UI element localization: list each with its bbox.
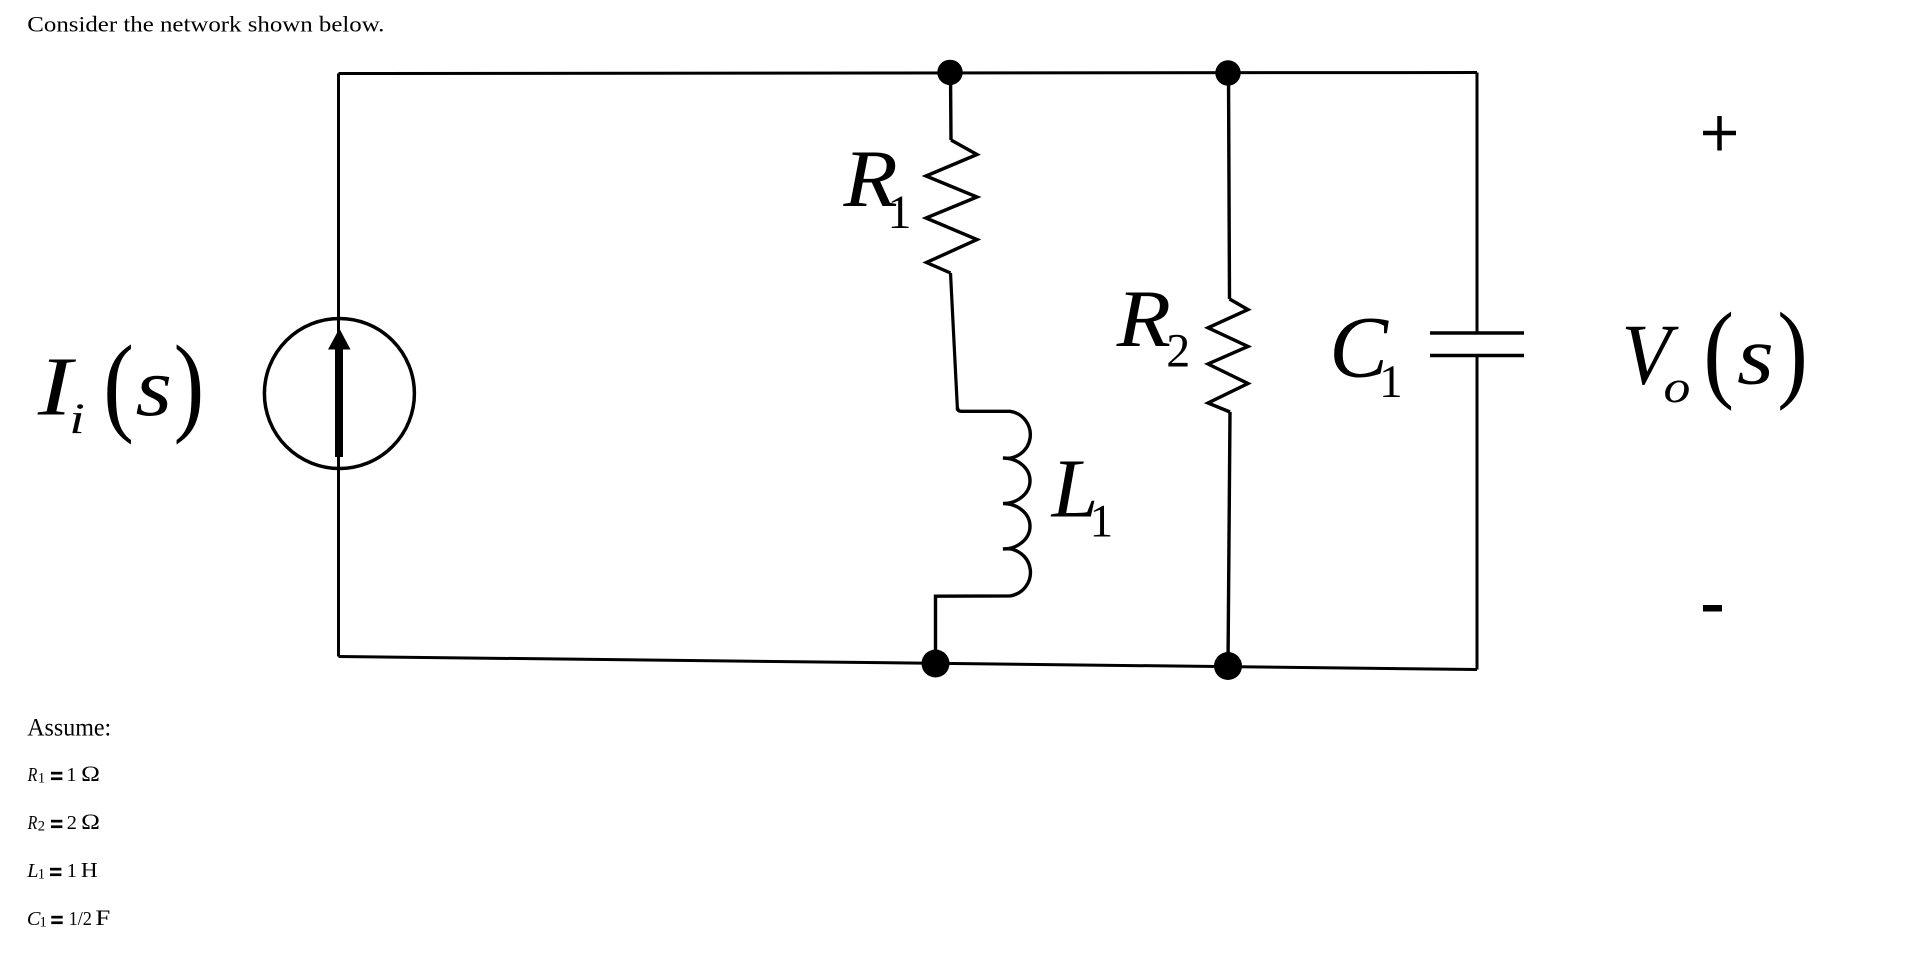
- resistor R2: [1208, 299, 1248, 412]
- assumption line C1: [27, 906, 110, 930]
- svg-text:(: (: [103, 324, 134, 446]
- wire: bottom bus: [339, 657, 1478, 670]
- label Vo(s): [1622, 290, 1808, 412]
- wire: left branch: [337, 74, 340, 657]
- svg-text:1/2: 1/2: [69, 908, 92, 930]
- svg-text:i: i: [69, 395, 85, 442]
- svg-text:R: R: [1116, 274, 1171, 364]
- svg-text:1: 1: [1090, 496, 1114, 548]
- label R2: [1116, 274, 1190, 377]
- assumption line L1: [26, 858, 97, 883]
- svg-text:1: 1: [66, 764, 76, 786]
- wire: top bus: [339, 73, 1478, 74]
- node A (top, R1 branch): [937, 60, 962, 85]
- svg-text:s: s: [1737, 309, 1774, 402]
- svg-text:Assume:: Assume:: [27, 713, 111, 741]
- current source Ii: [264, 319, 414, 469]
- svg-text:R: R: [27, 811, 38, 833]
- svg-text:o: o: [1664, 361, 1691, 412]
- svg-text:): ): [1777, 290, 1808, 411]
- svg-text:L: L: [26, 860, 38, 882]
- wire: node B to R2: [1229, 73, 1230, 299]
- wire: right branch bottom: [1476, 356, 1479, 670]
- svg-text:Consider the network shown bel: Consider the network shown below.: [27, 11, 384, 36]
- svg-text:1: 1: [888, 186, 912, 239]
- svg-text:1: 1: [40, 915, 47, 931]
- svg-text:1: 1: [38, 867, 45, 883]
- svg-text:): ): [174, 324, 205, 446]
- assumption line R2: [27, 811, 100, 835]
- capacitor C1: [1430, 333, 1524, 356]
- resistor R1: [926, 140, 977, 273]
- label R1: [842, 134, 911, 239]
- inductor L1: [936, 408, 1031, 663]
- svg-text:s: s: [136, 341, 173, 433]
- label Ii(s): [37, 324, 204, 446]
- wire: R2 to node D: [1228, 412, 1230, 666]
- label L1: [1051, 443, 1114, 548]
- wire: R1 to L1: [951, 273, 958, 411]
- svg-text:1: 1: [38, 771, 45, 787]
- svg-text:F: F: [95, 906, 110, 930]
- svg-text:R: R: [27, 763, 38, 785]
- svg-text:Ω: Ω: [81, 811, 100, 835]
- minus sign: [1703, 605, 1722, 612]
- svg-text:1: 1: [67, 860, 77, 882]
- node C (bottom, L1 branch): [922, 650, 950, 678]
- label C1: [1329, 299, 1402, 408]
- svg-text:H: H: [81, 858, 98, 882]
- svg-text:Ω: Ω: [81, 763, 100, 787]
- svg-text:2: 2: [1166, 324, 1190, 377]
- svg-text:2: 2: [38, 819, 45, 835]
- svg-text:1: 1: [1379, 356, 1403, 408]
- wire: right branch top: [1476, 73, 1479, 334]
- node D (bottom, R2 branch): [1214, 652, 1242, 680]
- svg-text:2: 2: [67, 812, 77, 834]
- plus sign: [1703, 116, 1736, 151]
- svg-text:(: (: [1703, 290, 1734, 411]
- wire: node A to R1: [949, 72, 953, 140]
- assumption line R1: [27, 763, 100, 787]
- node B (top, R2 branch): [1215, 60, 1240, 85]
